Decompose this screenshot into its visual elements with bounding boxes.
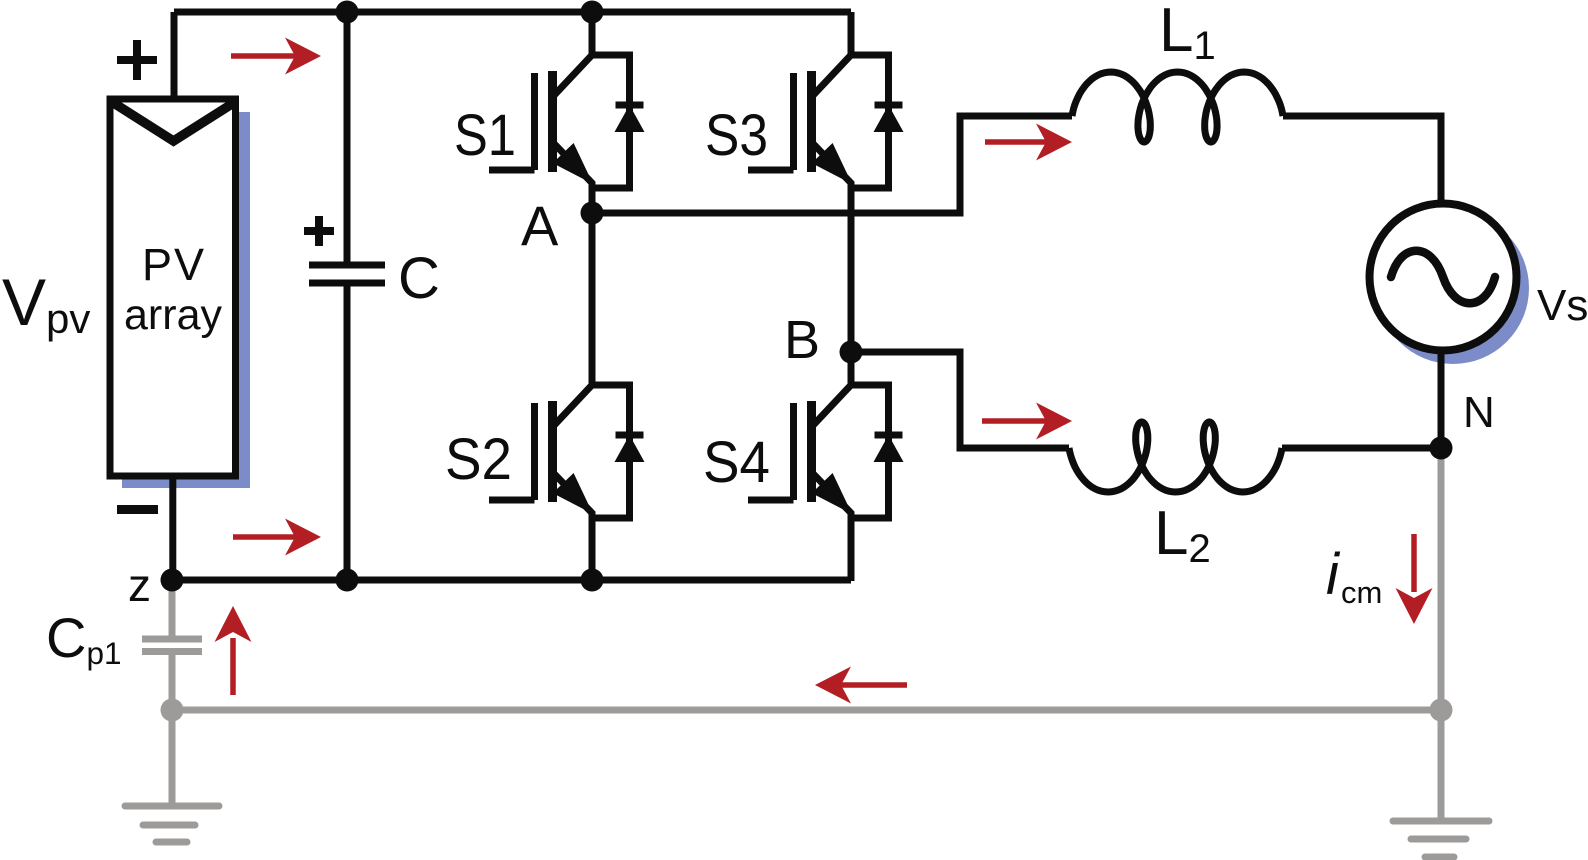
- IGBT S1 collector wire: [553, 35, 593, 97]
- wire bottom rail: [172, 577, 851, 584]
- current arrow up through Cp1: [230, 638, 236, 695]
- IGBT S3 emitter arrow: [812, 143, 852, 184]
- IGBT S4 emitter arrow: [812, 473, 852, 514]
- svg-text:i: i: [1326, 542, 1341, 607]
- IGBT S1 gate lead: [489, 167, 535, 174]
- svg-text:S3: S3: [705, 103, 768, 168]
- IGBT S1 gate bar: [531, 73, 538, 170]
- ground net gray rail: [172, 707, 1441, 714]
- svg-text:N: N: [1463, 388, 1495, 437]
- wire PV plus to top rail: [171, 12, 178, 99]
- wire Vs to node N: [1438, 351, 1445, 448]
- AC source Vs shadow: [1377, 212, 1529, 364]
- wire PV minus to node z: [169, 476, 176, 580]
- svg-text:S4: S4: [703, 430, 770, 495]
- wire node B to L2: [851, 352, 1069, 448]
- svg-text:B: B: [784, 310, 820, 370]
- svg-text:C: C: [398, 246, 440, 311]
- diode of S1 branch: [592, 55, 630, 188]
- junction dot top rail at C: [336, 1, 359, 24]
- current arrow ground return left: [839, 682, 907, 688]
- svg-text:cm: cm: [1341, 575, 1382, 610]
- capacitor C plate bottom: [309, 280, 385, 287]
- diode of S4 triangle: [874, 435, 904, 462]
- parasitic capacitor Cp1 plate top: [142, 636, 202, 643]
- svg-text:S1: S1: [454, 103, 516, 168]
- svg-text:array: array: [124, 291, 222, 339]
- wire node A to L1: [592, 116, 1072, 213]
- junction dot top rail at S1: [581, 1, 604, 24]
- IGBT S2 gate bar: [531, 403, 538, 500]
- ground junction dot left: [161, 699, 184, 722]
- AC source Vs body: [1370, 204, 1517, 351]
- IGBT S4 channel bar: [807, 401, 816, 502]
- diode of S1 triangle: [615, 105, 645, 132]
- wire L2 to node N: [1282, 445, 1441, 452]
- earth ground right stem: [1438, 710, 1445, 821]
- wire top rail: [174, 9, 851, 16]
- IGBT S2 channel bar: [548, 401, 557, 502]
- IGBT S4 collector wire: [812, 365, 852, 427]
- AC source Vs sine wave: [1391, 251, 1495, 304]
- IGBT S1 emitter arrow: [553, 143, 593, 184]
- diode of S3 triangle: [874, 105, 904, 132]
- diode of S4 cathode bar: [875, 432, 903, 439]
- IGBT S2 emitter arrow: [553, 473, 593, 514]
- current arrow bottom left: [233, 534, 299, 540]
- earth ground right bar2: [1411, 836, 1466, 843]
- wire S3 leg from top rail: [848, 12, 855, 55]
- node B dot: [840, 341, 863, 364]
- wire Cp1 to ground rail: [169, 655, 176, 710]
- junction dot bottom rail at C: [336, 569, 359, 592]
- current arrow into L1: [985, 139, 1052, 145]
- node N dot: [1430, 437, 1453, 460]
- PV array body: [110, 99, 236, 476]
- earth ground left bar1: [125, 803, 219, 810]
- plus terminal of PV: [117, 40, 157, 80]
- current arrow into L2: [982, 418, 1052, 424]
- IGBT S2 emitter: [553, 472, 593, 581]
- diode of S2 branch: [592, 385, 630, 518]
- inductor L1: [1072, 72, 1283, 142]
- diode of S1 cathode bar: [616, 102, 644, 109]
- earth ground right bar3: [1425, 854, 1454, 860]
- earth ground left bar3: [156, 839, 187, 846]
- PV array shadow: [122, 112, 250, 488]
- IGBT S3 gate bar: [790, 73, 797, 170]
- diode of S4 branch: [851, 385, 889, 518]
- capacitor C bottom lead: [344, 286, 351, 580]
- IGBT S4 gate bar: [790, 403, 797, 500]
- inductor L2: [1069, 422, 1282, 492]
- capacitor C top lead: [344, 12, 351, 262]
- IGBT S3 gate lead: [748, 167, 794, 174]
- earth ground right bar1: [1393, 818, 1489, 825]
- wire node B to S4: [848, 352, 855, 385]
- IGBT S2 gate lead: [489, 497, 535, 504]
- junction dot bottom rail at S2: [581, 569, 604, 592]
- svg-text:A: A: [521, 194, 559, 257]
- plus sign of C: [304, 216, 334, 246]
- IGBT S3 emitter: [812, 142, 852, 352]
- IGBT S3 channel bar: [807, 71, 816, 172]
- wire node A to S2: [589, 213, 596, 385]
- IGBT S4 emitter: [812, 472, 852, 581]
- wire node z to Cp1: [169, 580, 176, 636]
- PV array chevron: [112, 102, 235, 141]
- IGBT S4 gate lead: [748, 497, 794, 504]
- svg-text:Vs: Vs: [1537, 281, 1588, 330]
- capacitor C plate top: [309, 262, 385, 269]
- svg-text:z: z: [128, 559, 151, 611]
- IGBT S3 collector wire: [812, 35, 852, 97]
- current arrow icm down: [1411, 534, 1417, 592]
- diode of S2 cathode bar: [616, 432, 644, 439]
- ground junction dot right: [1430, 699, 1453, 722]
- earth ground left stem: [169, 710, 176, 806]
- svg-text:PV: PV: [142, 239, 206, 290]
- wire L1 to Vs: [1283, 116, 1441, 200]
- diode of S3 cathode bar: [875, 102, 903, 109]
- wire S1 leg from top rail: [589, 12, 596, 55]
- IGBT S1 emitter: [553, 142, 593, 214]
- svg-text:S2: S2: [445, 427, 512, 492]
- node A dot: [581, 202, 604, 225]
- node z dot: [161, 569, 184, 592]
- earth ground left bar2: [143, 822, 195, 829]
- IGBT S2 collector wire: [553, 365, 593, 427]
- minus terminal of PV: [117, 505, 158, 514]
- diode of S3 branch: [851, 55, 889, 188]
- diode of S2 triangle: [615, 435, 645, 462]
- IGBT S1 channel bar: [548, 71, 557, 172]
- wire node N to ground rail: [1438, 448, 1445, 710]
- parasitic capacitor Cp1 plate bottom: [142, 648, 202, 655]
- current arrow top left: [231, 53, 299, 59]
